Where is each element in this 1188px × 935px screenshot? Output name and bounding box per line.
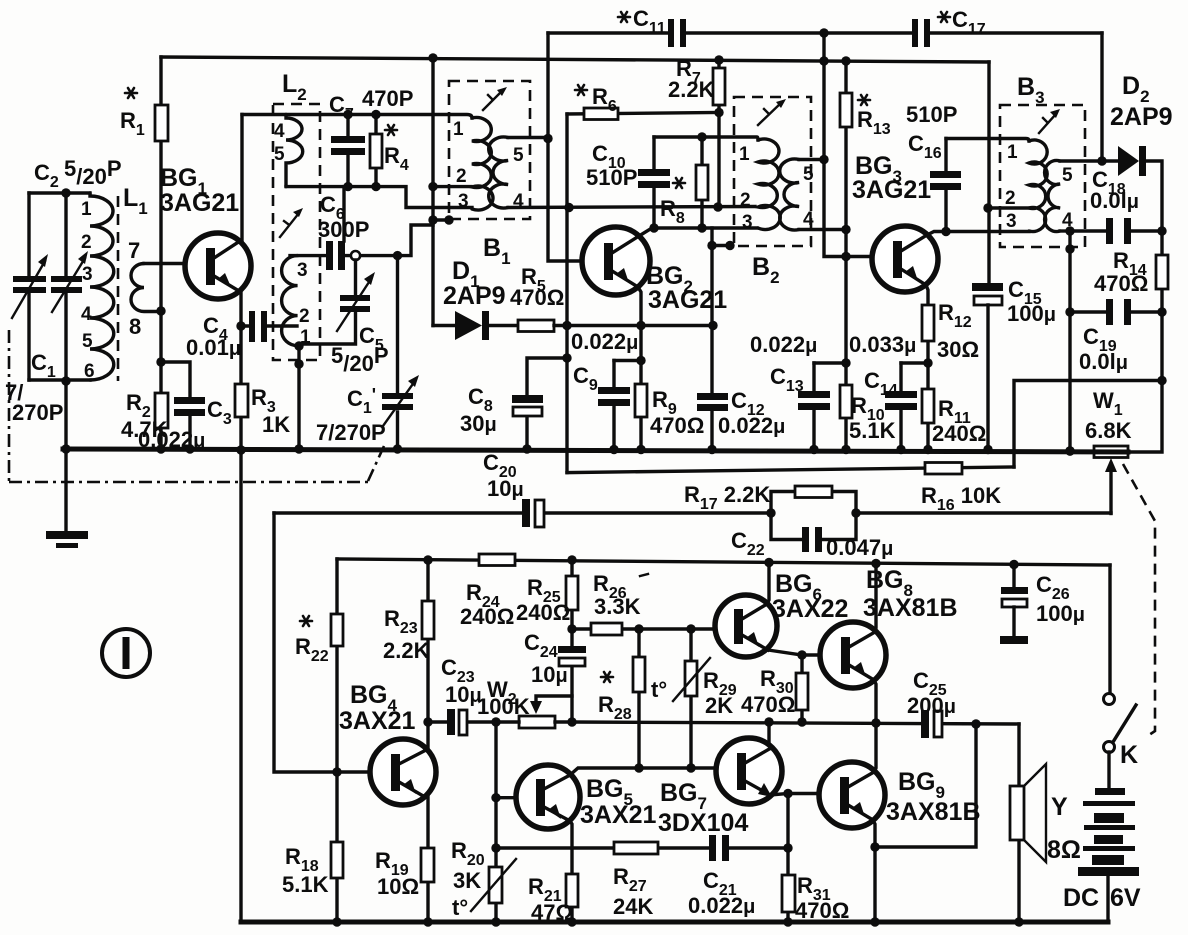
transistor BG3 bbox=[872, 226, 938, 292]
wire BG5 emitter to R21 bbox=[570, 821, 572, 922]
node right column AGC line bbox=[1157, 376, 1166, 385]
node R30 at mid line bbox=[797, 717, 806, 726]
resistor R6 bbox=[567, 113, 719, 115]
svg-text:4: 4 bbox=[81, 304, 92, 325]
node C26 at rail bbox=[1009, 560, 1018, 569]
node long line to R7 column bbox=[713, 202, 722, 211]
svg-text:3AX22: 3AX22 bbox=[772, 595, 848, 623]
node detector line end at C12 column bbox=[708, 321, 717, 330]
capacitor C14 0.033u bbox=[899, 363, 902, 450]
node detector line to BG2 emitter bbox=[636, 321, 645, 330]
node R9 to bus bbox=[636, 445, 645, 454]
node pin4 to R13 column bbox=[841, 225, 850, 234]
node C15 to bus bbox=[983, 445, 992, 454]
node junction gang top bbox=[61, 188, 70, 197]
svg-text:3AG21: 3AG21 bbox=[160, 189, 239, 217]
transistor BG1 emitter wire down bbox=[239, 292, 242, 449]
battery DC 6V bbox=[1107, 752, 1110, 789]
node pin5 to neutralizing column bbox=[543, 134, 552, 143]
transistor BG9 bbox=[819, 762, 885, 828]
svg-text:470Ω: 470Ω bbox=[795, 898, 849, 923]
inductor B1 primary winding pins 1-2-3 bbox=[472, 117, 493, 210]
svg-text:1: 1 bbox=[739, 144, 750, 165]
capacitor C4 0.01u bbox=[241, 324, 297, 327]
wire neutralizing column B1 pin5 to AGC rail and BG2 base bbox=[548, 33, 582, 261]
capacitor C11 bbox=[668, 19, 674, 47]
star mark of C17 bbox=[938, 12, 950, 22]
capacitor C25 200u electrolytic bbox=[928, 710, 935, 738]
svg-text:0.022μ: 0.022μ bbox=[750, 332, 817, 357]
svg-text:30μ: 30μ bbox=[460, 411, 497, 436]
inductor L2 lower winding pins 3-2-1 bbox=[282, 256, 298, 346]
transistor BG1 bbox=[185, 233, 251, 299]
svg-text:7/270P: 7/270P bbox=[316, 420, 386, 445]
wire B3 pin4 to detector node bbox=[1060, 229, 1070, 232]
wire BG9 collector up to mid node bbox=[874, 723, 876, 772]
svg-text:3: 3 bbox=[458, 191, 469, 212]
node base column at R20 line bbox=[491, 843, 500, 852]
capacitor C1' oscillator gang 7/270P bbox=[396, 256, 399, 449]
svg-text:5: 5 bbox=[1062, 165, 1073, 186]
resistor R22 bbox=[331, 614, 343, 646]
node C1' to bus bbox=[393, 444, 402, 453]
node pin5 to AGC column bbox=[819, 155, 828, 164]
node B1 core ground right bbox=[444, 215, 453, 224]
svg-text:3: 3 bbox=[742, 212, 753, 233]
svg-text:0.022μ: 0.022μ bbox=[688, 893, 755, 918]
resistor R28 bbox=[637, 629, 640, 768]
transistor BG6 bbox=[715, 595, 777, 657]
star mark of R28 bbox=[601, 672, 613, 682]
resistor R11 240ohm bbox=[922, 389, 934, 423]
dashed box of L2 bbox=[273, 104, 320, 360]
svg-text:2.2K: 2.2K bbox=[668, 77, 715, 102]
svg-text:470Ω: 470Ω bbox=[1094, 271, 1148, 296]
svg-text:3AX21: 3AX21 bbox=[580, 801, 657, 829]
svg-text:470Ω: 470Ω bbox=[741, 692, 795, 717]
svg-text:3AX21: 3AX21 bbox=[339, 707, 416, 735]
wire BG2 collector line y=228 bbox=[652, 226, 757, 229]
wire AGC column to BG3 base bbox=[824, 33, 872, 257]
svg-text:3DX104: 3DX104 bbox=[658, 809, 748, 837]
capacitor C13 0.022u bbox=[812, 363, 815, 450]
node BG9 base bbox=[783, 789, 792, 798]
node rail to R13 bbox=[841, 56, 850, 65]
node R2 column joins C3 jog bbox=[156, 357, 165, 366]
svg-text:2: 2 bbox=[81, 232, 92, 253]
svg-text:300P: 300P bbox=[318, 217, 369, 242]
resistor R14 470ohm bbox=[1160, 231, 1163, 312]
node C19 left bbox=[1065, 307, 1074, 316]
node rail to oscillator column bbox=[428, 53, 437, 62]
svg-text:2: 2 bbox=[299, 306, 310, 327]
ground symbol bbox=[64, 451, 67, 532]
resistor R24 240ohm on rail bbox=[479, 554, 515, 566]
inductor B2 secondary winding pins 5-4 bbox=[780, 159, 799, 230]
wire R6 column bbox=[565, 114, 568, 473]
node L2 pin1 bottom bbox=[294, 341, 303, 350]
capacitor C1 arrow bbox=[12, 261, 45, 318]
svg-text:3AG21: 3AG21 bbox=[648, 286, 727, 314]
svg-text:1: 1 bbox=[453, 119, 464, 140]
svg-text:240Ω: 240Ω bbox=[516, 600, 570, 625]
inductor L2 upper winding pins 4-5 bbox=[286, 115, 303, 187]
wire L2 pin1 to bus bbox=[297, 346, 300, 449]
node BG5 base tee bbox=[491, 793, 500, 802]
svg-text:270P: 270P bbox=[12, 400, 63, 425]
svg-text:0.0lμ: 0.0lμ bbox=[1079, 349, 1128, 374]
node BG8 base R30 bbox=[797, 650, 806, 659]
resistor R3 bbox=[235, 384, 248, 417]
svg-text:5: 5 bbox=[513, 145, 524, 166]
terminal open circle bbox=[351, 251, 360, 260]
node B3 core link bbox=[1065, 244, 1074, 253]
capacitor C7 470P bbox=[346, 115, 349, 187]
node BG8 collector at rail bbox=[871, 559, 880, 568]
wire BG8 collector to rail bbox=[875, 564, 876, 633]
inductor B2 primary winding pins 1-2-3 bbox=[758, 139, 780, 229]
svg-text:4: 4 bbox=[274, 121, 285, 142]
svg-text:100μ: 100μ bbox=[1036, 601, 1085, 626]
svg-text:5: 5 bbox=[274, 144, 285, 165]
wire detector node column down to bus bbox=[1068, 231, 1071, 451]
node R25 bottom R26 tee bbox=[567, 624, 576, 633]
wire BG6 collector to rail bbox=[767, 563, 769, 605]
svg-text:DC: DC bbox=[1063, 884, 1099, 912]
node emitter to C4 bbox=[236, 321, 245, 330]
star mark of R8 bbox=[673, 178, 685, 188]
node R20 at bottom rail bbox=[491, 917, 500, 926]
node left return at bus bbox=[236, 445, 245, 454]
node C13 to bus bbox=[809, 445, 818, 454]
resistor R26 3.3K bbox=[572, 627, 716, 630]
node emitter jog to C14 bbox=[923, 358, 932, 367]
svg-text:3AG21: 3AG21 bbox=[852, 176, 931, 204]
node rail to R25 bbox=[567, 555, 576, 564]
svg-text:2AP9: 2AP9 bbox=[1110, 103, 1173, 131]
wire BG4 emitter to R19 bbox=[426, 795, 429, 922]
wire top of gang bbox=[29, 191, 90, 194]
resistor R8 bbox=[700, 137, 703, 228]
svg-text:5: 5 bbox=[803, 164, 814, 185]
svg-text:470Ω: 470Ω bbox=[650, 413, 704, 438]
star mark of C11 bbox=[618, 12, 630, 22]
wire B2 pin4 to R13 column bbox=[799, 228, 846, 231]
svg-text:5: 5 bbox=[82, 331, 93, 352]
capacitor C1' arrow bbox=[383, 381, 415, 426]
resistor R17 2.2K bbox=[771, 492, 856, 514]
node B1 core ground left bbox=[428, 215, 437, 224]
resistor R4 bbox=[374, 115, 377, 187]
wire C12 column from collector line to bus bbox=[710, 228, 713, 450]
transistor BG4 bbox=[370, 739, 436, 805]
resistor R9 470ohm bbox=[639, 361, 642, 450]
node ground stem at bus bbox=[61, 444, 70, 453]
capacitor C8 30u electrolytic bbox=[527, 358, 567, 449]
diode D2 2AP9 bbox=[1118, 146, 1139, 176]
wire BG6 emitter to BG8 base bbox=[768, 650, 821, 655]
wire B2 core link bbox=[712, 244, 730, 247]
wire BG5 collector to BG7 base line bbox=[570, 768, 716, 775]
wire supply column to C15 bbox=[987, 62, 990, 284]
node L2 box corner link bbox=[294, 359, 303, 368]
capacitor C23 10u electrolytic bbox=[428, 720, 496, 723]
node C1' top branch bbox=[393, 251, 402, 260]
node collector line to C16 bbox=[941, 227, 950, 236]
svg-text:0.01μ: 0.01μ bbox=[186, 335, 241, 360]
wire BG7 collector to mid line bbox=[769, 722, 771, 748]
node AGC rail to B2 column bbox=[819, 28, 828, 37]
wire left return column bbox=[239, 451, 242, 922]
node R8 bottom bbox=[697, 223, 706, 232]
node pin2 supply column bbox=[983, 203, 992, 212]
wire gang bottom to ground bus bbox=[64, 381, 67, 449]
capacitor C18 0.01u bbox=[1070, 229, 1162, 232]
potentiometer W2 100K bbox=[519, 716, 555, 728]
inductor B3 primary winding pins 1-2-3 bbox=[1029, 140, 1047, 232]
dashed gang link horizontal bbox=[9, 481, 368, 484]
wire B1 pin4 long node to B2 pin2 bbox=[508, 207, 755, 208]
svg-text:510P: 510P bbox=[906, 102, 957, 127]
svg-text:100K: 100K bbox=[477, 694, 530, 719]
node emitter jog to C9 bbox=[636, 356, 645, 365]
wire audio line right to W1 wiper bbox=[856, 511, 1111, 514]
svg-text:30Ω: 30Ω bbox=[937, 337, 979, 362]
diode D1 2AP9 bbox=[433, 324, 518, 327]
node R10 to bus bbox=[841, 445, 850, 454]
node C9 to bus bbox=[609, 445, 618, 454]
node pin4 detector node bbox=[1065, 226, 1074, 235]
svg-text:0.047μ: 0.047μ bbox=[826, 535, 893, 560]
node R29 bottom at BG7 base line bbox=[686, 763, 695, 772]
wire B1 pin2 to detector column bbox=[433, 185, 471, 188]
svg-text:t°: t° bbox=[452, 895, 468, 920]
svg-text:4: 4 bbox=[803, 209, 814, 230]
wire C10 top line to B2 pin1 bbox=[654, 137, 758, 140]
wire jog to C9 bbox=[614, 359, 641, 362]
resistor R2 bbox=[155, 393, 168, 428]
resistor R18 5.1K bbox=[335, 772, 338, 922]
capacitor C5 variable 5/20P bbox=[302, 260, 356, 344]
wire AGC line from R6 column to right column bbox=[567, 467, 1014, 473]
star mark of R6 bbox=[575, 85, 587, 95]
node C25 right bbox=[971, 719, 980, 728]
resistor R20 3K thermistor bbox=[494, 848, 497, 922]
wire AGC return line bbox=[1014, 381, 1162, 468]
svg-text:2: 2 bbox=[740, 190, 751, 211]
svg-text:2.2K: 2.2K bbox=[383, 638, 430, 663]
svg-text:10μ: 10μ bbox=[487, 476, 524, 501]
slug arrow of B2 bbox=[758, 103, 781, 125]
capacitor C3 0.022u bbox=[174, 397, 205, 404]
node bus at W1 left bbox=[1065, 446, 1074, 455]
svg-text:5.1K: 5.1K bbox=[282, 872, 329, 897]
wire BG2 collector diagonal bbox=[639, 228, 652, 236]
node C8 top to R6 column bbox=[562, 353, 571, 362]
wire R13 column bbox=[844, 61, 847, 363]
capacitor C26 100u electrolytic bbox=[1012, 565, 1015, 588]
svg-text:0.022μ: 0.022μ bbox=[571, 329, 638, 354]
wire BG3 emitter down bbox=[926, 285, 928, 450]
wire C6 left to L2 pin3 bbox=[290, 254, 326, 257]
node AGC column at supply rail bbox=[819, 56, 828, 65]
node audio line at R17 left bbox=[766, 508, 775, 517]
node R28 top bbox=[634, 624, 643, 633]
node R18 at bottom rail bbox=[332, 917, 341, 926]
node C8 to bus bbox=[522, 444, 531, 453]
wire BG8 emitter to mid node bbox=[874, 680, 876, 723]
node BG9 emitter at rail bbox=[870, 917, 879, 926]
node R21 at bottom rail bbox=[567, 917, 576, 926]
node R2 at bus bbox=[156, 444, 165, 453]
wire BG1 collector to L2 pin4 and B1 pin1 bbox=[242, 115, 472, 119]
wiper arrow of W1 bbox=[1109, 466, 1112, 514]
resistor R29 2K thermistor bbox=[689, 629, 692, 768]
svg-text:3AX81B: 3AX81B bbox=[886, 798, 981, 826]
resistor R16 10K bbox=[925, 463, 962, 475]
resistor R1 bbox=[155, 105, 168, 141]
node R8 top bbox=[697, 132, 706, 141]
capacitor C16 510P bbox=[944, 139, 947, 232]
transistor BG2 bbox=[582, 227, 650, 295]
node junction gang bottom bbox=[61, 376, 70, 385]
node C21 right at R31 column bbox=[783, 843, 792, 852]
svg-text:510P: 510P bbox=[586, 165, 637, 190]
resistor R31 470ohm bbox=[782, 875, 795, 912]
node C18 right bbox=[1157, 226, 1166, 235]
node R29 top bbox=[686, 624, 695, 633]
wire right column W1 to R14 bbox=[1128, 312, 1162, 452]
resistor R30 470ohm bbox=[800, 655, 803, 722]
node BG6 collector at rail bbox=[764, 558, 773, 567]
node audio line at R17 right bbox=[851, 508, 860, 517]
node bus L2 pin1 bbox=[294, 444, 303, 453]
resistor R27 24K bbox=[614, 842, 658, 854]
transistor BG7 NPN bbox=[716, 738, 782, 804]
dashed box of B2 bbox=[734, 97, 811, 246]
wiper arrow of W2 with C24 jog bbox=[536, 696, 572, 706]
svg-text:470Ω: 470Ω bbox=[510, 285, 564, 310]
svg-text:5.1K: 5.1K bbox=[849, 418, 896, 443]
wire rail left corner down to R22 bbox=[335, 559, 338, 772]
svg-text:t°: t° bbox=[651, 677, 667, 702]
star mark of R22 bbox=[300, 616, 312, 626]
svg-text:3: 3 bbox=[82, 264, 93, 285]
svg-text:200μ: 200μ bbox=[907, 693, 956, 718]
node C14 to bus bbox=[896, 445, 905, 454]
potentiometer W1 6.8K bbox=[1094, 446, 1128, 458]
node BG8 emitter at mid line bbox=[871, 718, 880, 727]
wire BG7 emitter to BG9 base node bbox=[770, 794, 788, 796]
resistor R12 30ohm bbox=[922, 305, 934, 341]
svg-text:6V: 6V bbox=[1110, 884, 1141, 912]
node C7 top bbox=[343, 110, 352, 119]
switch K bbox=[1108, 565, 1111, 693]
svg-text:2AP9: 2AP9 bbox=[443, 282, 506, 310]
capacitor C2 variable (5/20P) body bbox=[64, 193, 67, 380]
node R31 at bottom rail bbox=[783, 917, 792, 926]
wire AGC takeoff up to C17 rail bbox=[1100, 33, 1103, 161]
node R28 bottom at BG7 base line bbox=[634, 763, 643, 772]
wire L1 secondary pin7 to base bbox=[144, 262, 206, 265]
svg-text:2: 2 bbox=[1005, 188, 1016, 209]
capacitor C24 10u electrolytic bbox=[558, 646, 586, 653]
node R13 column crosses base line bbox=[841, 252, 850, 261]
svg-text:8Ω: 8Ω bbox=[1047, 836, 1081, 864]
wire B1 pin5 to BG2 base column bbox=[508, 136, 548, 139]
svg-text:3: 3 bbox=[297, 260, 308, 281]
svg-text:2K: 2K bbox=[705, 693, 733, 718]
node C12 column top bbox=[707, 241, 716, 250]
svg-text:0.0lμ: 0.0lμ bbox=[1090, 188, 1139, 213]
wire jog C13 bbox=[814, 361, 846, 364]
wire L2 winding bottom node y=186.6 bbox=[286, 187, 472, 208]
node speaker at rail bbox=[1014, 917, 1023, 926]
capacitor C20 10u electrolytic bbox=[274, 511, 771, 514]
node C10 stem bottom on collector line bbox=[649, 223, 658, 232]
svg-text:2: 2 bbox=[456, 166, 467, 187]
wire oscillator column x=433 bbox=[431, 58, 434, 326]
wire B1 core link bbox=[433, 218, 449, 221]
node C7/C6 junction bbox=[343, 182, 352, 191]
svg-text:1K: 1K bbox=[262, 412, 290, 437]
node C3 at bus bbox=[185, 444, 194, 453]
inductor B1 secondary winding pins 5-4 bbox=[489, 137, 508, 208]
speaker Y 8ohm bbox=[1017, 724, 1020, 922]
wire R25 column bbox=[570, 560, 573, 722]
wire B3 pin5 to D2 anode bbox=[1060, 159, 1118, 162]
svg-text:10μ: 10μ bbox=[531, 662, 568, 687]
wire B3 pin2 to supply column bbox=[988, 206, 1029, 209]
star mark of R13 bbox=[858, 95, 870, 105]
wire BG9 base node column bbox=[788, 794, 819, 923]
svg-text:1: 1 bbox=[1007, 142, 1018, 163]
resistor R21 47ohm bbox=[566, 874, 578, 907]
svg-text:Y: Y bbox=[1051, 793, 1068, 821]
node R19 at bottom rail bbox=[423, 917, 432, 926]
capacitor C9 0.022u bbox=[612, 361, 615, 450]
capacitor C6 300P bbox=[342, 187, 345, 241]
node C23 to BG5 base column bbox=[491, 717, 500, 726]
node C12 to bus bbox=[707, 445, 716, 454]
wire feedback segment bbox=[875, 724, 976, 847]
wire R23 column rail to collector bbox=[426, 560, 429, 750]
capacitor C10 510P bbox=[652, 137, 655, 228]
node detector line to R6 column bbox=[562, 321, 571, 330]
node R11 to bus bbox=[923, 445, 932, 454]
svg-text:3: 3 bbox=[1006, 211, 1017, 232]
wire jog to C3 bbox=[161, 362, 190, 449]
wire C20 left down to BG4 base bbox=[274, 513, 370, 772]
dashed gang link W1 to switch K bbox=[1123, 464, 1155, 737]
node pin4 to R6 column bbox=[564, 203, 573, 212]
resistor R7 2.2K bbox=[717, 60, 720, 207]
transistor BG8 bbox=[820, 622, 886, 688]
transistor BG1 collector wire up to L2 feed bbox=[240, 115, 243, 241]
dashed box of B3 bbox=[1000, 105, 1085, 247]
node pin2 column bbox=[428, 182, 437, 191]
wire BG5 base lead bbox=[496, 796, 529, 799]
resistor R19 10ohm bbox=[421, 848, 434, 882]
capacitor C22 0.047u bbox=[771, 513, 856, 540]
star mark of R1 bbox=[125, 88, 137, 98]
slug arrow of B3 bbox=[1039, 114, 1056, 133]
resistor R23 2.2K bbox=[422, 601, 434, 639]
wire bottom of gang bbox=[29, 378, 90, 381]
wire R27 line bbox=[496, 846, 788, 849]
svg-text:240Ω: 240Ω bbox=[460, 604, 514, 629]
node rail to R7 bbox=[714, 55, 723, 64]
